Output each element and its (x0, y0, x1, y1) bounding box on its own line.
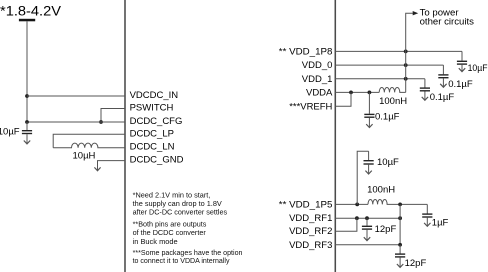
svg-text:VDD_RF2: VDD_RF2 (289, 226, 332, 237)
svg-text:DCDC_CFG: DCDC_CFG (130, 116, 183, 127)
node rail RF1 (398, 216, 402, 220)
wire VDD_RF1 (335, 217, 400, 219)
svg-text:10µF: 10µF (377, 157, 399, 168)
node VDCDC_IN junction (25, 94, 29, 98)
svg-text:**Both pins are outputs: **Both pins are outputs (133, 219, 207, 228)
capacitor C1 10uF input (22, 122, 32, 144)
wire PSWITCH (101, 109, 125, 123)
node PSWITCH-DCDC_CFG junction (99, 120, 103, 124)
node rail RF3 (398, 243, 402, 247)
svg-text:VDD_RF1: VDD_RF1 (289, 213, 332, 224)
svg-text:VDCDC_IN: VDCDC_IN (130, 90, 179, 101)
wire VREFH (335, 92, 351, 106)
wire rail to arrow (406, 13, 413, 92)
svg-text:12pF: 12pF (375, 224, 397, 235)
svg-text:** VDD_1P8: ** VDD_1P8 (279, 46, 333, 57)
ground under C4 (422, 97, 428, 100)
capacitor C5 0.1uF VDDA (364, 92, 374, 127)
wire VDD_0 (335, 64, 443, 66)
capacitor C4 0.1uF (420, 79, 430, 100)
svg-text:*1.8-4.2V: *1.8-4.2V (0, 4, 62, 19)
svg-text:100nH: 100nH (367, 185, 395, 196)
svg-text:VDD_0: VDD_0 (302, 60, 333, 71)
svg-text:0.1µF: 0.1µF (430, 92, 455, 103)
wire VDCDC_IN (27, 95, 125, 97)
node riser junction (355, 203, 359, 207)
inductor L1 10uH (53, 143, 125, 148)
svg-text:after DC-DC converter settles: after DC-DC converter settles (133, 207, 228, 216)
node C5 junction (368, 91, 372, 95)
svg-text:other circuits: other circuits (420, 16, 475, 27)
inductor L3 100nH (368, 199, 400, 204)
ground under C3 (440, 84, 446, 87)
svg-text:DCDC_LN: DCDC_LN (130, 142, 175, 153)
ground DCDC_GND (94, 167, 100, 170)
svg-text:VDD_1: VDD_1 (302, 74, 333, 85)
wire VDD_RF2 (335, 218, 357, 231)
wire supply stem (26, 21, 28, 122)
ground under C5 (366, 124, 372, 127)
svg-text:to connect it to VDDA internal: to connect it to VDDA internally (133, 256, 230, 265)
capacitor C2 10uF (457, 51, 467, 71)
inductor L2 100nH (379, 87, 406, 92)
node C8 junction (365, 216, 369, 220)
svg-text:DCDC_GND: DCDC_GND (130, 155, 184, 166)
chip edge left (124, 0, 126, 272)
svg-text:100nH: 100nH (379, 96, 407, 107)
wire rail down (399, 204, 401, 244)
wire DCDC_LP (53, 134, 125, 147)
wire DCDC_CFG (27, 121, 125, 123)
ground under C7 (424, 223, 430, 226)
ground under C6 (365, 171, 371, 174)
svg-text:10µF: 10µF (0, 126, 20, 137)
svg-text:0.1µF: 0.1µF (448, 79, 473, 90)
wire riser to C6 (357, 151, 368, 204)
chip edge right (334, 0, 336, 272)
wire VDD_1P5 (335, 203, 368, 205)
ground under C9 (397, 264, 403, 267)
svg-text:of the DCDC converter: of the DCDC converter (133, 228, 207, 237)
svg-text:VDD_RF3: VDD_RF3 (289, 240, 332, 251)
ground under C2 (459, 68, 465, 71)
capacitor C8 12pF (362, 218, 372, 240)
node rail VDD_1 (404, 77, 408, 81)
node DCDC_CFG junction (25, 120, 29, 124)
svg-text:***VREFH: ***VREFH (289, 101, 332, 112)
node rail VDD_0 (404, 63, 408, 67)
wire VDD_1P5 out (400, 203, 427, 205)
svg-text:12pF: 12pF (405, 258, 427, 269)
svg-text:10µF: 10µF (468, 63, 488, 74)
node L3 out (398, 203, 402, 207)
svg-text:1µF: 1µF (432, 218, 449, 229)
svg-text:DCDC_LP: DCDC_LP (130, 128, 174, 139)
node RF2 junction (355, 216, 359, 220)
wire VDD_1 (335, 78, 425, 80)
wire VDD_RF3 (335, 244, 400, 246)
wire VDD_1P8 (335, 50, 462, 52)
node rail VDD_1P8 (404, 50, 408, 54)
svg-text:10µH: 10µH (73, 151, 96, 162)
svg-text:in Buck mode: in Buck mode (133, 237, 178, 246)
supply bar (19, 19, 35, 22)
capacitor C9 12pF (395, 245, 405, 267)
wire VDDA (335, 91, 379, 93)
svg-text:VDDA: VDDA (306, 87, 333, 98)
svg-text:PSWITCH: PSWITCH (130, 102, 174, 113)
wire DCDC_GND (98, 161, 126, 171)
capacitor C7 1uF (422, 204, 432, 226)
svg-text:** VDD_1P5: ** VDD_1P5 (279, 199, 333, 210)
capacitor C6 10uF (364, 151, 374, 174)
ground under C8 (364, 237, 370, 240)
capacitor C3 0.1uF (438, 65, 448, 87)
arrowhead to power (413, 11, 419, 15)
ground under C1 (24, 141, 30, 144)
node VREFH-VDDA junction (349, 91, 353, 95)
svg-text:0.1µF: 0.1µF (375, 112, 400, 123)
